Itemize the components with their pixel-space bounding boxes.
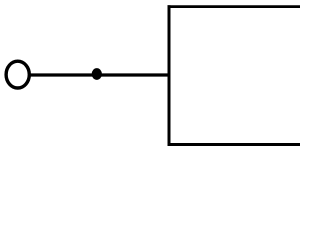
block U1 left edge [168,5,171,146]
terminal T1 (open circle) [6,61,29,88]
wire [30,73,170,76]
node A (junction dot) [92,68,102,80]
block U1 top edge [168,5,301,8]
block U1 bottom edge [168,143,301,146]
